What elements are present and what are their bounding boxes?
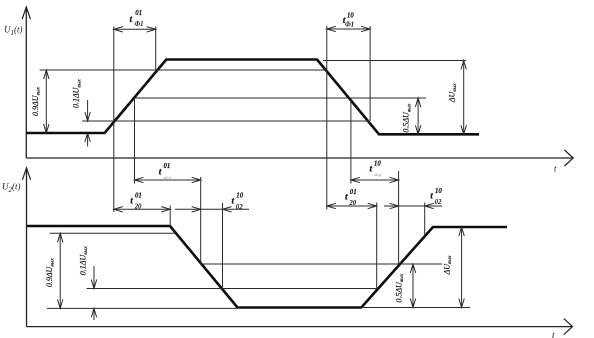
svg-text:10: 10 [236,193,243,200]
svg-text:t: t [370,165,373,175]
svg-text:t: t [159,168,162,178]
svg-text:зд.р: зд.р [163,175,172,180]
svg-text:02: 02 [236,204,243,211]
svg-text:t: t [130,197,133,207]
svg-text:Ф1: Ф1 [345,22,354,29]
svg-text:01: 01 [135,10,142,17]
svg-text:t: t [345,193,348,203]
svg-text:20: 20 [348,200,356,207]
svg-text:01: 01 [164,163,171,170]
svg-text:02: 02 [435,199,442,206]
svg-text:Ф1: Ф1 [134,21,143,28]
svg-text:зд.р: зд.р [373,172,382,177]
svg-text:10: 10 [347,13,354,20]
svg-text:t: t [232,197,235,207]
svg-text:20: 20 [134,204,142,211]
svg-text:10: 10 [435,188,442,195]
svg-text:10: 10 [374,161,381,168]
svg-text:t: t [430,192,433,202]
svg-text:01: 01 [135,193,142,200]
svg-text:01: 01 [350,189,357,196]
svg-text:t: t [130,15,133,25]
